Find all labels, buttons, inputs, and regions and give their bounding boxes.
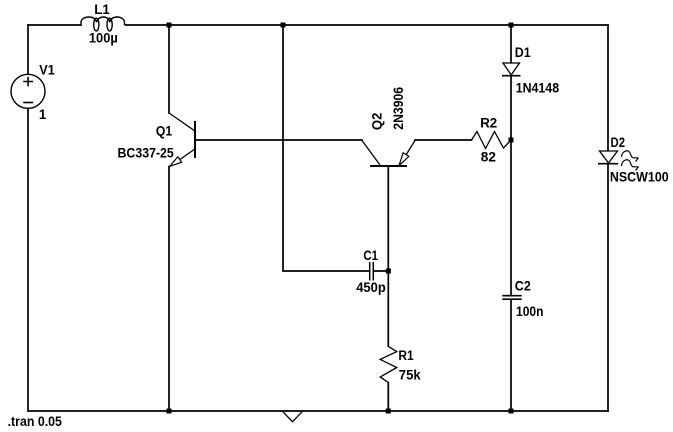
svg-text:1N4148: 1N4148 [516,81,560,96]
svg-text:V1: V1 [39,62,55,77]
svg-text:450p: 450p [356,280,386,295]
svg-text:.tran 0.05: .tran 0.05 [8,414,63,429]
svg-text:1: 1 [39,107,47,122]
svg-text:75k: 75k [399,368,421,383]
svg-text:BC337-25: BC337-25 [118,145,175,160]
svg-text:Q2: Q2 [369,113,384,131]
svg-text:D2: D2 [611,135,626,150]
svg-text:R1: R1 [398,348,414,363]
svg-text:Q1: Q1 [156,124,173,139]
svg-text:82: 82 [481,150,496,165]
svg-text:D1: D1 [515,45,531,60]
svg-text:C2: C2 [515,278,531,293]
svg-text:R2: R2 [480,116,497,131]
svg-text:100n: 100n [516,304,544,319]
svg-text:100µ: 100µ [89,31,118,46]
svg-text:2N3906: 2N3906 [391,86,406,129]
svg-text:NSCW100: NSCW100 [610,169,669,184]
svg-text:C1: C1 [363,248,378,263]
svg-text:L1: L1 [94,2,110,17]
